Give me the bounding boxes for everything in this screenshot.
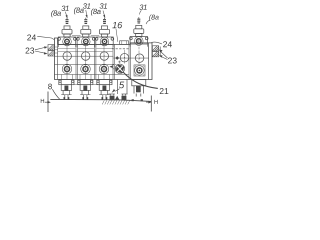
label 5 xyxy=(112,82,125,93)
section division line 2 xyxy=(95,44,96,79)
label 8a unit1 xyxy=(51,10,61,17)
small cross above relief valve xyxy=(118,61,121,64)
lower bolt col2 xyxy=(81,64,91,74)
end unit feet xyxy=(132,99,134,101)
low boss on block top xyxy=(120,41,129,45)
end bolt square boss xyxy=(134,65,145,76)
label 31 unit2 xyxy=(83,3,90,18)
gallery line through spool bores xyxy=(55,55,114,57)
end section centerline xyxy=(138,47,140,64)
column centerline 4 xyxy=(124,50,126,64)
spool bore circle col1 xyxy=(63,52,72,61)
label 23 right xyxy=(158,49,176,63)
link line between caps xyxy=(72,35,99,37)
label 16 xyxy=(112,22,122,42)
top valve unit 1 xyxy=(58,18,77,47)
label 8a unit3 xyxy=(91,8,101,15)
end section lower bolt xyxy=(135,66,145,76)
mounting base line xyxy=(50,99,151,101)
left side bolt upper xyxy=(48,45,55,50)
section division line 4 xyxy=(129,43,130,80)
gallery line mid xyxy=(55,64,115,66)
dashed passage with arrow xyxy=(109,64,116,68)
end section port circle xyxy=(135,54,144,63)
column centerline 3 xyxy=(103,44,105,79)
spool bore circle col3 xyxy=(100,52,109,61)
top valve unit 2 xyxy=(77,18,96,47)
lower bolt col3 xyxy=(99,64,109,74)
label 8a unit2 xyxy=(74,7,84,14)
upper gallery segment xyxy=(58,48,113,51)
section division line 3 xyxy=(113,44,114,79)
valve block body outline xyxy=(55,38,153,80)
lower bolt col1 xyxy=(62,64,72,74)
plate link lines xyxy=(74,83,98,85)
label 21 with leader xyxy=(123,72,169,94)
port diamond xyxy=(115,56,119,60)
right end cap plate xyxy=(148,43,150,80)
bottom outlet column xyxy=(109,80,128,96)
left end plate inner line xyxy=(57,44,59,79)
column centerline 1 xyxy=(66,44,68,79)
bottom end unit xyxy=(132,80,146,97)
relief valve dark square X xyxy=(115,64,124,73)
bottom outlet nub left xyxy=(110,96,115,101)
label 31 unit1 xyxy=(61,6,68,19)
label 24 left xyxy=(27,34,54,40)
base dark wedge xyxy=(115,96,120,101)
section marker H right xyxy=(146,96,158,112)
right side bolt upper xyxy=(152,46,158,51)
left plate ticks xyxy=(55,47,58,53)
section division line 1 xyxy=(76,44,77,79)
spool bore circle col4 xyxy=(120,53,129,62)
top valve unit 4 xyxy=(130,17,149,46)
spool bore circle col2 xyxy=(81,52,90,61)
label 8 bottom left xyxy=(48,84,60,100)
label 24 right xyxy=(152,41,172,47)
top valve unit 3 xyxy=(95,18,114,47)
right side bolt lower xyxy=(152,47,160,57)
base hatching xyxy=(102,100,130,104)
label 8a unit4 xyxy=(146,14,159,24)
label 31 unit4 xyxy=(139,4,146,14)
bottom outlet nub right xyxy=(122,96,127,101)
gallery line lower xyxy=(55,73,130,75)
bottom valve unit 1 xyxy=(59,80,74,100)
dashed passage upper right xyxy=(112,48,130,50)
bottom valve unit 3 xyxy=(97,80,112,100)
left side bolt lower xyxy=(48,51,55,56)
column centerline 2 xyxy=(85,44,87,79)
bottom valve unit 2 xyxy=(78,80,93,100)
flange ticks above bottom units xyxy=(62,75,110,80)
label 23 left xyxy=(26,46,48,54)
section marker H left xyxy=(41,92,51,113)
label 31 unit3 xyxy=(100,3,107,18)
